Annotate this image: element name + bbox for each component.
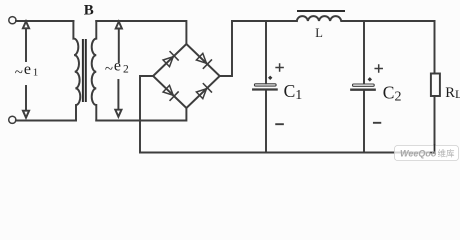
capacitor C1 bottom plate: [253, 88, 276, 90]
svg-text:~: ~: [105, 62, 113, 78]
diode D4 (bottom-right edge): [196, 84, 211, 99]
capacitor C2 lead top: [363, 21, 365, 83]
capacitor C1 minus sign: [276, 123, 283, 125]
arrow e2 down: [115, 80, 121, 117]
transformer B secondary winding: [92, 21, 97, 121]
diode D3 (left-bottom edge): [163, 85, 178, 100]
capacitor C1 top plate: [254, 84, 276, 86]
wire bottom-left rail: [16, 120, 76, 122]
svg-text:1: 1: [33, 66, 39, 78]
RL lead over watermark: [430, 144, 435, 153]
terminal top-left: [9, 17, 16, 24]
capacitor C1 plus sign: [276, 64, 283, 71]
diode D2 (top-right edge): [196, 53, 211, 68]
capacitor C2 lead bottom: [363, 91, 365, 153]
wire top-left rail: [16, 20, 73, 22]
wire secondary top rail: [96, 21, 186, 44]
resistor RL body: [431, 74, 440, 97]
terminal bottom-left: [9, 116, 16, 123]
svg-text:B: B: [84, 3, 94, 19]
arrow e1 down: [23, 86, 29, 118]
svg-text:e: e: [114, 58, 121, 75]
arrow e2 up: [116, 22, 122, 63]
capacitor C1 lead bottom: [265, 91, 267, 153]
arrow e1 up: [23, 21, 29, 61]
transformer core bar 2: [85, 39, 87, 102]
capacitor C1 polarity dot: [268, 76, 272, 80]
svg-text:C2: C2: [383, 82, 402, 104]
capacitor C2 plus sign: [375, 65, 382, 72]
svg-text:2: 2: [123, 63, 129, 75]
svg-text:维库: 维库: [438, 149, 456, 159]
capacitor C2 polarity dot: [368, 77, 372, 81]
transformer B primary winding: [73, 21, 80, 121]
svg-text:C1: C1: [284, 81, 303, 103]
inductor L core bar: [297, 10, 345, 12]
capacitor C2 minus sign: [374, 122, 380, 124]
capacitor C1 lead top: [265, 21, 267, 83]
diode D1 (left-top edge): [163, 52, 178, 67]
transformer core bar 1: [82, 39, 84, 102]
svg-text:WeeQoo: WeeQoo: [400, 149, 437, 159]
resistor RL bottom lead: [434, 96, 436, 153]
capacitor C2 top plate: [353, 84, 375, 86]
capacitor C2 bottom plate: [351, 89, 374, 91]
inductor L coil: [297, 16, 435, 21]
svg-text:e: e: [24, 61, 31, 78]
wire bridge plus output: [220, 21, 297, 76]
svg-text:~: ~: [15, 65, 23, 81]
bridge rectifier diamond: [153, 44, 220, 108]
svg-text:RL: RL: [445, 85, 460, 101]
watermark box: [395, 144, 459, 161]
wire secondary bottom to bridge: [96, 108, 186, 121]
wire bridge minus output: [140, 76, 435, 153]
svg-text:L: L: [315, 26, 323, 40]
wire top rail down to RL: [434, 21, 436, 74]
